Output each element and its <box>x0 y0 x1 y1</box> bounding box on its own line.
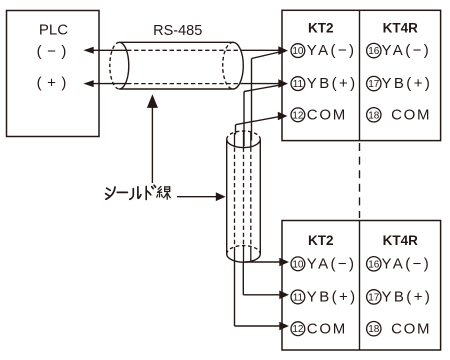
svg-text:10: 10 <box>292 259 304 270</box>
svg-text:KT4R: KT4R <box>383 20 419 35</box>
svg-text:17: 17 <box>368 292 380 303</box>
svg-text:YB(+): YB(+) <box>382 75 433 92</box>
svg-text:18: 18 <box>368 110 380 121</box>
svg-text:YA(−): YA(−) <box>307 42 357 59</box>
svg-text:COM: COM <box>307 320 347 337</box>
svg-text:COM: COM <box>307 106 347 123</box>
svg-text:YB(+): YB(+) <box>307 75 358 92</box>
svg-text:(−): (−) <box>37 43 72 60</box>
svg-text:10: 10 <box>292 46 304 57</box>
svg-text:12: 12 <box>292 324 304 335</box>
svg-text:KT2: KT2 <box>308 233 334 248</box>
svg-text:YB(+): YB(+) <box>382 289 433 306</box>
svg-text:YA(−): YA(−) <box>382 255 432 272</box>
svg-text:17: 17 <box>368 79 380 90</box>
svg-text:COM: COM <box>391 320 431 337</box>
svg-text:(+): (+) <box>37 75 72 92</box>
svg-text:COM: COM <box>391 106 431 123</box>
svg-text:PLC: PLC <box>39 21 68 38</box>
svg-text:16: 16 <box>368 259 380 270</box>
svg-text:YB(+): YB(+) <box>307 289 358 306</box>
svg-text:YA(−): YA(−) <box>382 42 432 59</box>
svg-text:12: 12 <box>292 110 304 121</box>
svg-text:KT2: KT2 <box>308 20 334 35</box>
svg-text:11: 11 <box>293 79 304 90</box>
svg-text:YA(−): YA(−) <box>307 255 357 272</box>
svg-text:11: 11 <box>293 292 304 303</box>
svg-text:18: 18 <box>368 324 380 335</box>
svg-text:16: 16 <box>368 46 380 57</box>
svg-text:KT4R: KT4R <box>383 233 419 248</box>
svg-text:RS-485: RS-485 <box>153 23 202 39</box>
